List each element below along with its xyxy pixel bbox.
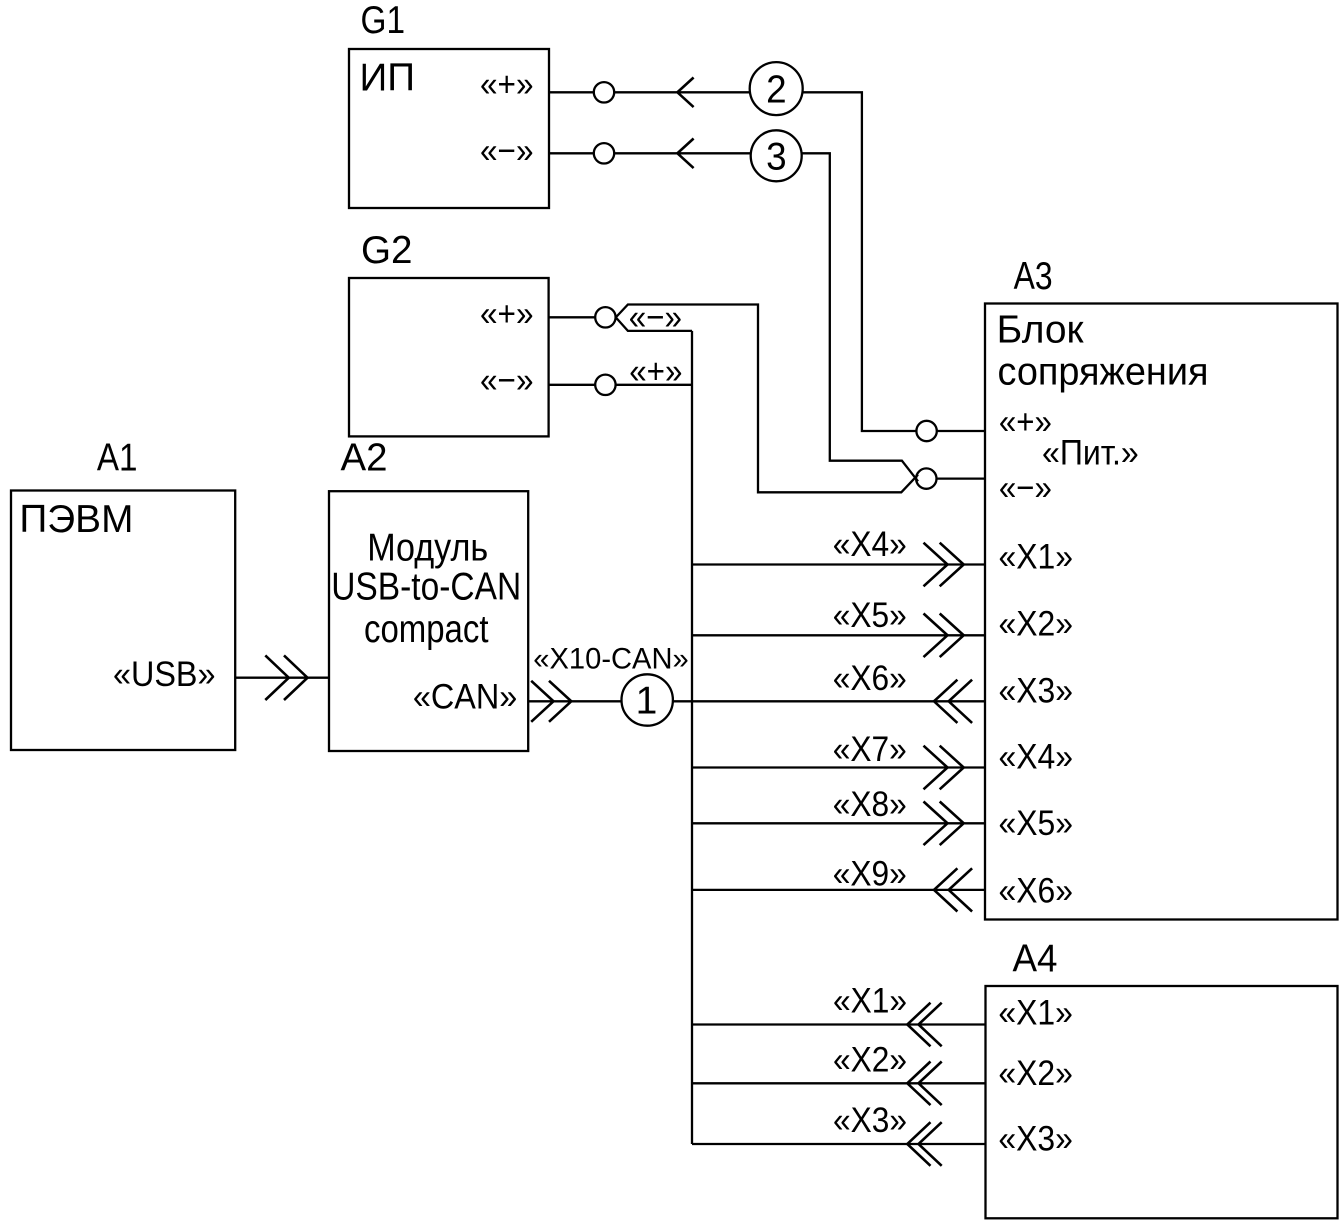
svg-text:«CAN»: «CAN» xyxy=(413,677,517,716)
arrow left double on A4 X1 wire xyxy=(907,1003,941,1047)
svg-text:«X10-CAN»: «X10-CAN» xyxy=(533,642,688,675)
svg-text:3: 3 xyxy=(766,136,787,179)
arrow right double on X7 wire xyxy=(924,746,964,790)
block A1 (ПЭВМ) xyxy=(11,437,235,750)
svg-text:«X9»: «X9» xyxy=(833,854,907,893)
svg-text:«−»: «−» xyxy=(480,361,534,400)
wire G2 «−» stub xyxy=(549,384,596,386)
svg-text:«X1»: «X1» xyxy=(833,982,907,1021)
svg-text:сопряжения: сопряжения xyxy=(998,351,1209,394)
marker circle 2 outline xyxy=(750,62,803,115)
svg-text:«X6»: «X6» xyxy=(999,872,1074,911)
arrow right double on X8 wire xyxy=(924,802,964,846)
svg-text:G1: G1 xyxy=(361,0,406,42)
wire bus to A3 «X2» xyxy=(692,634,985,636)
svg-text:G2: G2 xyxy=(361,229,413,272)
svg-text:A3: A3 xyxy=(1014,255,1053,298)
marker circle 3 outline xyxy=(751,130,802,181)
block A4 outline xyxy=(986,986,1338,1218)
arrow right double on X5 wire xyxy=(924,614,964,658)
svg-text:«X2»: «X2» xyxy=(998,1054,1073,1093)
wire net «+» from G2 «−» to bus xyxy=(616,384,692,386)
svg-text:A2: A2 xyxy=(341,437,388,480)
svg-text:«X4»: «X4» xyxy=(999,738,1074,777)
wire G2 «+» stub xyxy=(549,316,596,318)
block G2 xyxy=(349,229,549,436)
svg-text:ИП: ИП xyxy=(360,57,416,100)
svg-text:«X5»: «X5» xyxy=(999,804,1074,843)
svg-text:1: 1 xyxy=(636,680,658,723)
svg-text:ПЭВМ: ПЭВМ xyxy=(19,498,133,541)
arrow right double on CAN wire xyxy=(531,681,571,722)
arrow left double on A4 X3 wire xyxy=(907,1122,941,1166)
svg-text:A1: A1 xyxy=(97,437,138,480)
svg-text:«X3»: «X3» xyxy=(833,1101,907,1140)
arrow left on G1 «−» wire xyxy=(677,139,693,169)
svg-text:compact: compact xyxy=(364,608,489,651)
svg-text:USB-to-CAN: USB-to-CAN xyxy=(331,565,521,608)
svg-text:«X5»: «X5» xyxy=(833,596,907,635)
marker circle 1 outline xyxy=(622,674,673,725)
terminal circle A3 «−» xyxy=(916,468,936,488)
arrow left double on A4 X2 wire xyxy=(907,1062,941,1106)
svg-text:«X1»: «X1» xyxy=(998,994,1073,1033)
arrow left double on X6 wire xyxy=(934,680,972,723)
block G1 outline xyxy=(349,49,549,208)
svg-text:«X2»: «X2» xyxy=(999,604,1074,643)
svg-text:Модуль: Модуль xyxy=(367,527,488,570)
wire circle 2 to A3 «+» xyxy=(803,92,917,431)
svg-text:«−»: «−» xyxy=(480,131,534,170)
block A4 xyxy=(986,938,1338,1219)
svg-text:Блок: Блок xyxy=(997,308,1085,351)
wire circle 1 to A3 «X3» crossing bus xyxy=(673,700,985,702)
block G1 (power source ИП) xyxy=(349,0,549,208)
block A2 (Модуль USB-to-CAN compact) xyxy=(329,437,528,751)
svg-text:«+»: «+» xyxy=(480,65,534,104)
wire A1 «USB» to A2 xyxy=(235,677,329,679)
arrow right double on USB wire xyxy=(265,655,307,700)
wire A3 «−» stub xyxy=(937,477,986,479)
wire vertical bus xyxy=(691,331,693,1144)
wire bus to A3 «X5» xyxy=(692,822,985,824)
cable marker circle 1 xyxy=(622,674,673,725)
block A3 outline xyxy=(985,304,1338,920)
svg-text:«X1»: «X1» xyxy=(999,537,1074,576)
terminal circle G2 «−» xyxy=(595,375,615,395)
arrow left on G1 «+» wire xyxy=(677,78,693,108)
svg-text:«−»: «−» xyxy=(999,468,1052,507)
wire G1 «−» to circle 3 xyxy=(614,152,750,154)
wire bottom arm from G2 «+» to bus xyxy=(616,317,692,331)
svg-text:«+»: «+» xyxy=(629,352,682,391)
svg-text:«+»: «+» xyxy=(480,295,534,334)
terminal circle A3 «+» xyxy=(916,421,936,441)
wire bus to A4 «X3» xyxy=(692,1143,986,1145)
arrow right double on X4 wire xyxy=(924,543,964,587)
svg-text:«X2»: «X2» xyxy=(833,1041,907,1080)
svg-text:«X7»: «X7» xyxy=(833,730,907,769)
svg-text:«X3»: «X3» xyxy=(999,672,1074,711)
svg-text:«Пит.»: «Пит.» xyxy=(1042,434,1139,473)
cable marker circle 2 xyxy=(750,62,803,115)
wire G1 «−» stub xyxy=(549,152,594,154)
svg-text:«X8»: «X8» xyxy=(833,785,907,824)
wire G1 «+» stub xyxy=(549,91,594,93)
terminal circle G2 «+» xyxy=(595,307,615,327)
wire circle 3 to A3 «−» xyxy=(802,153,918,481)
svg-text:2: 2 xyxy=(766,68,787,111)
block A1 outline xyxy=(11,491,235,751)
svg-text:«USB»: «USB» xyxy=(113,655,216,694)
svg-text:A4: A4 xyxy=(1013,938,1058,981)
wire bus to A4 «X1» xyxy=(692,1023,986,1025)
arrow left double on X9 wire xyxy=(934,868,972,911)
block A3 (Блок сопряжения) xyxy=(985,255,1338,920)
wire bus to A3 «X4» xyxy=(692,766,985,768)
svg-text:«X3»: «X3» xyxy=(998,1120,1073,1159)
wire A2 «CAN» to circle 1 xyxy=(528,700,621,702)
svg-text:«X4»: «X4» xyxy=(833,525,907,564)
wire A3 «+» stub xyxy=(937,430,985,432)
block A2 outline xyxy=(329,491,528,751)
wire bus to A3 «X6» xyxy=(692,889,985,891)
block G2 outline xyxy=(349,278,549,436)
terminal circle G1 «−» xyxy=(594,143,614,163)
wire bus to A4 «X2» xyxy=(692,1082,986,1084)
wire bus to A3 «X1» xyxy=(692,563,985,565)
cable marker circle 3 xyxy=(751,130,802,181)
terminal circle G1 «+» xyxy=(594,82,614,102)
svg-text:«X6»: «X6» xyxy=(833,659,907,698)
wire net «−» top arm from G2 «+» to A3 «−» xyxy=(616,305,918,493)
wire G1 «+» to circle 2 xyxy=(614,91,750,93)
